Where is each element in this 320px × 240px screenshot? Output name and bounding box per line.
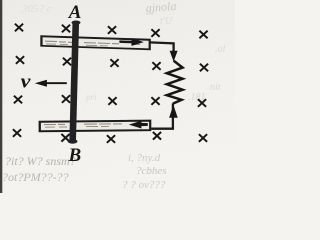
wire: below resistor down to bottom corner <box>151 103 173 128</box>
svg-text:nit: nit <box>210 82 221 93</box>
velocity arrow (points left) <box>35 80 67 87</box>
svg-text:?cbhes: ?cbhes <box>136 165 167 177</box>
magnetic field symbols (B into page), row 4 <box>13 129 207 143</box>
magnetic field symbols (B into page), row 3 <box>14 95 206 107</box>
svg-text:t'U: t'U <box>160 16 173 27</box>
current arrow in bottom rail (points left) <box>129 121 148 129</box>
rod AB (sliding conductor) <box>68 21 81 144</box>
current arrowhead pointing down into resistor <box>170 51 178 62</box>
svg-text:i, ?ny.d: i, ?ny.d <box>128 152 161 164</box>
decorative page border fragment <box>0 0 2 193</box>
magnetic field symbols (B into page), row 2 <box>16 56 208 71</box>
wire: top rail right end to resistor (corner) <box>150 42 174 53</box>
decorative scan bleed-through text (unlabeled, placed before labeled elements) <box>2 0 226 191</box>
bottom rail (conducting track) <box>39 120 152 133</box>
top rail (conducting track) <box>40 35 151 50</box>
svg-text:?it? W? snsm?: ?it? W? snsm? <box>5 154 76 168</box>
svg-text:B: B <box>68 145 82 166</box>
svg-text:? ? ov???: ? ? ov??? <box>122 179 166 191</box>
current arrow in top rail (points right) <box>119 38 143 46</box>
resistor R (zigzag) <box>167 61 183 104</box>
magnetic field symbols (B into page), row 1 <box>15 24 208 39</box>
current arrowhead pointing up toward resistor <box>169 105 178 118</box>
svg-text:pri: pri <box>85 92 97 102</box>
svg-text:305? c: 305? c <box>21 3 52 15</box>
svg-text:.al: .al <box>215 44 226 55</box>
svg-text:A: A <box>68 2 82 23</box>
svg-text:gjnola: gjnola <box>145 0 177 15</box>
svg-text:?ot?PM??-??: ?ot?PM??-?? <box>2 170 69 184</box>
svg-text:v: v <box>21 72 32 92</box>
